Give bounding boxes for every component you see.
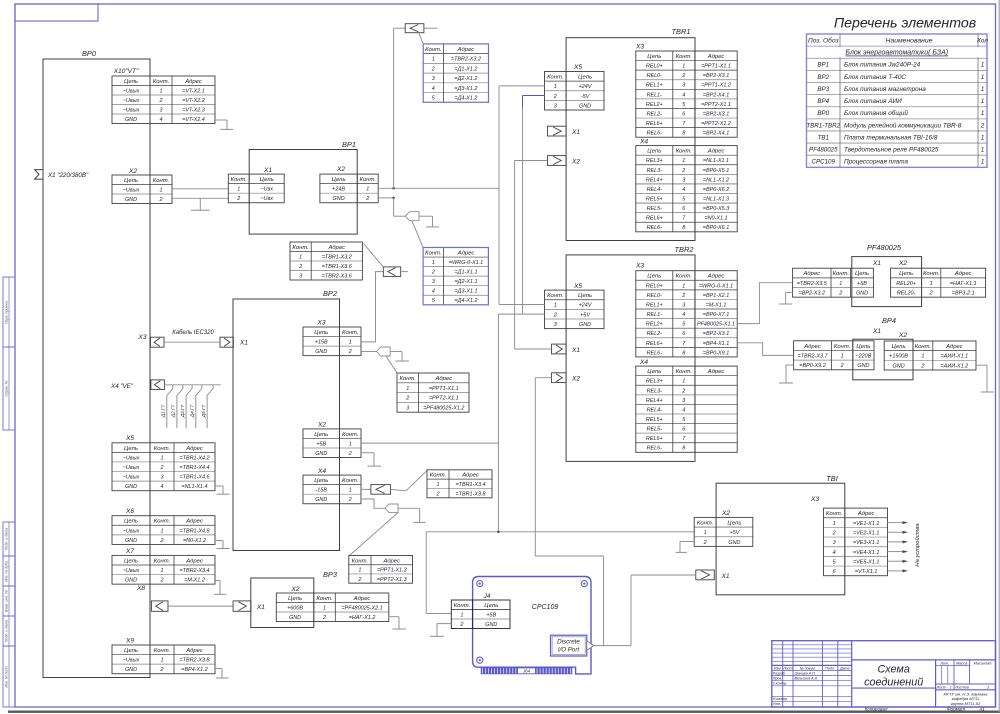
svg-text:REL2-: REL2- [647, 111, 663, 117]
svg-text:-5V: -5V [581, 94, 591, 100]
svg-text:Конт.: Конт. [352, 558, 368, 564]
svg-text:Кабель IEC320: Кабель IEC320 [172, 330, 214, 336]
svg-text:Конт.: Конт. [826, 511, 842, 517]
leader to PPT table [386, 356, 397, 373]
svg-text:2: 2 [681, 168, 685, 174]
svg-text:GND: GND [125, 538, 137, 544]
svg-text:=WRG-0-X1.1: =WRG-0-X1.1 [699, 283, 733, 289]
svg-text:1: 1 [432, 260, 435, 266]
svg-text:BP2: BP2 [817, 74, 829, 81]
svg-text:REL20-: REL20- [897, 291, 916, 297]
svg-text:Изм: Изм [774, 666, 781, 670]
svg-text:~Uвх: ~Uвх [260, 196, 273, 202]
svg-text:TBR1: TBR1 [672, 27, 691, 36]
svg-text:8: 8 [682, 131, 685, 137]
svg-text:Блок питания магнетрона: Блок питания магнетрона [844, 86, 926, 93]
wires TBR2 X3 to BP4 [737, 343, 793, 356]
svg-text:BP2: BP2 [323, 289, 337, 298]
svg-text:Шанцев А.П.: Шанцев А.П. [795, 671, 816, 675]
svg-text:REL0+: REL0+ [646, 283, 663, 289]
svg-text:2: 2 [159, 538, 163, 544]
leader from t3 table [364, 244, 384, 267]
svg-text:Адрес: Адрес [707, 149, 725, 155]
svg-text:=NL1-X1.3: =NL1-X1.3 [703, 196, 729, 202]
svg-text:1: 1 [839, 281, 842, 287]
svg-text:X2: X2 [571, 159, 580, 166]
branch wire D4 from X4 VE bus [196, 385, 202, 428]
svg-text:Справ. №: Справ. № [4, 380, 8, 396]
svg-text:6: 6 [682, 331, 686, 337]
svg-text:Цепь: Цепь [124, 648, 138, 654]
svg-text:1: 1 [237, 187, 240, 193]
svg-text:REL6+: REL6+ [646, 341, 663, 347]
page edge shadow [8, 711, 1000, 713]
svg-text:4: 4 [682, 407, 685, 413]
svg-text:=BP4-X1.2: =BP4-X1.2 [181, 667, 207, 673]
svg-text:REL6-: REL6- [647, 350, 663, 356]
svg-text:2: 2 [322, 615, 326, 621]
wire TBR2 X2 to CPC109 [535, 377, 551, 379]
relay module TBR1 [566, 38, 695, 241]
svg-text:X1: X1 [571, 129, 580, 136]
branch wire D1 from X4 VE bus [167, 385, 173, 428]
svg-text:~Uвх: ~Uвх [260, 187, 273, 193]
svg-text:2: 2 [405, 396, 409, 402]
svg-text:1: 1 [841, 353, 844, 359]
svg-text:Утв.: Утв. [773, 702, 781, 706]
svg-text:Цепь: Цепь [855, 271, 869, 277]
svg-text:Адрес: Адрес [707, 274, 725, 280]
svg-text:~Uвых: ~Uвых [123, 658, 140, 664]
wire X2 GND to BP1-X1 pin2 [172, 197, 228, 199]
svg-text:1: 1 [358, 568, 361, 574]
TBR1 connector X1 chevron [548, 126, 567, 136]
svg-text:X1: X1 [721, 573, 730, 580]
svg-text:GND: GND [485, 622, 497, 628]
svg-text:Адрес: Адрес [857, 511, 875, 517]
svg-text:=TBR2-X3.4: =TBR2-X3.4 [179, 568, 209, 574]
svg-text:Блок питания АИИ: Блок питания АИИ [844, 98, 902, 105]
BP2 connector X1 chevron [220, 337, 233, 347]
svg-text:1: 1 [682, 283, 685, 289]
svg-text:Д3.Г7: Д3.Г7 [180, 404, 185, 418]
svg-text:Копировал: Копировал [865, 706, 888, 711]
svg-text:8: 8 [682, 446, 685, 452]
TBR2 connector X1 chevron [552, 344, 567, 354]
svg-text:X3: X3 [316, 320, 325, 327]
svg-text:REL0+: REL0+ [646, 64, 663, 70]
svg-text:+600В: +600В [287, 605, 303, 611]
TBR1 connector X2 chevron [548, 156, 567, 166]
svg-text:REL1-: REL1- [647, 92, 663, 98]
wire X8 to BP3-X1 [168, 605, 233, 607]
svg-text:=НАГ-X1.1: =НАГ-X1.1 [950, 281, 977, 287]
top-left corner box [15, 4, 98, 21]
tag on BP1 GND net [406, 212, 420, 221]
svg-text:~Uвых: ~Uвых [123, 528, 140, 534]
svg-text:REL4+: REL4+ [646, 398, 663, 404]
svg-text:Д1.Г7: Д1.Г7 [161, 404, 166, 418]
svg-text:Цепь: Цепь [892, 344, 906, 350]
svg-text:Лит.: Лит. [939, 661, 949, 665]
power unit BP4 [853, 339, 913, 380]
svg-text:3: 3 [554, 103, 557, 109]
svg-text:REL5-: REL5- [647, 206, 663, 212]
svg-text:BP1: BP1 [342, 140, 356, 149]
svg-text:X3: X3 [137, 334, 146, 341]
svg-text:Лист: Лист [782, 666, 792, 670]
TBR2 connector X2 chevron [552, 373, 567, 383]
svg-text:Конт.: Конт. [547, 75, 563, 81]
svg-text:4: 4 [432, 289, 435, 295]
svg-text:=NL1-X1.1: =NL1-X1.1 [703, 158, 729, 164]
card edge connector [481, 668, 572, 674]
svg-text:=TBR1-X4.6: =TBR1-X4.6 [179, 475, 210, 481]
svg-text:REL2+: REL2+ [646, 102, 663, 108]
svg-text:Адрес: Адрес [707, 54, 725, 60]
svg-text:5: 5 [682, 196, 686, 202]
svg-text:=TBR2-X3.6: =TBR2-X3.6 [322, 273, 353, 279]
svg-text:REL4-: REL4- [647, 187, 663, 193]
svg-text:Конт.: Конт. [676, 149, 692, 155]
svg-text:=Д4-X1.2: =Д4-X1.2 [454, 96, 477, 102]
svg-text:Взам. инв. №: Взам. инв. № [4, 590, 8, 612]
svg-text:Формат: Формат [947, 706, 965, 711]
svg-text:X1: X1 [571, 347, 580, 354]
svg-text:=WRG-0-X1.1: =WRG-0-X1.1 [449, 260, 483, 266]
svg-text:2: 2 [980, 122, 985, 129]
svg-text:=АИИ-X1.1: =АИИ-X1.1 [941, 354, 969, 360]
svg-text:REL20+: REL20+ [896, 281, 916, 287]
svg-text:GND: GND [125, 197, 137, 203]
svg-text:=М-X1.2: =М-X1.2 [184, 578, 205, 584]
svg-text:Кол: Кол [977, 37, 988, 44]
svg-text:+5В: +5В [857, 281, 867, 287]
svg-text:=Д1-X1.2: =Д1-X1.2 [454, 66, 477, 72]
svg-text:~Uвых: ~Uвых [123, 475, 140, 481]
svg-text:X5: X5 [573, 283, 582, 290]
svg-text:Н.контр.: Н.контр. [773, 697, 788, 701]
svg-text:Цепь: Цепь [314, 478, 328, 484]
svg-text:7: 7 [682, 121, 686, 127]
svg-text:2: 2 [348, 497, 352, 503]
cable address table WRG (blue) [423, 256, 488, 258]
page right edge line [998, 0, 1000, 712]
svg-text:2: 2 [365, 196, 369, 202]
svg-text:соединений: соединений [864, 677, 923, 689]
svg-text:BP0: BP0 [817, 110, 829, 117]
wire bus from X4 VE [164, 384, 220, 386]
svg-text:=Д4-X1.2: =Д4-X1.2 [454, 298, 477, 304]
svg-text:=N0-X1.2: =N0-X1.2 [183, 538, 206, 544]
svg-text:1: 1 [159, 187, 162, 193]
svg-text:REL4+: REL4+ [646, 177, 663, 183]
svg-text:=BP0-X7.1: =BP0-X7.1 [703, 312, 729, 318]
svg-text:~220В: ~220В [855, 353, 871, 359]
svg-text:=BP0-X5.1: =BP0-X5.1 [703, 168, 729, 174]
BP0 cable entry X1 220/380V [35, 170, 43, 180]
svg-text:Масштаб: Масштаб [974, 661, 993, 665]
svg-text:4: 4 [159, 117, 162, 123]
svg-text:=BP3-2.1: =BP3-2.1 [952, 291, 975, 297]
svg-text:5: 5 [682, 417, 686, 423]
svg-text:+24V: +24V [579, 303, 593, 309]
svg-text:Конт.: Конт. [425, 47, 441, 53]
svg-text:X1: X1 [256, 604, 265, 611]
svg-text:=TBR2-X3.5: =TBR2-X3.5 [797, 281, 828, 287]
svg-text:3: 3 [159, 107, 162, 113]
svg-text:4: 4 [682, 312, 685, 318]
svg-text:=PPT2-X1.1: =PPT2-X1.1 [701, 102, 731, 108]
relay module TBR2 [566, 255, 695, 462]
svg-text:Цепь: Цепь [647, 54, 661, 60]
svg-text:X2: X2 [898, 332, 907, 339]
ground J4 GND [437, 623, 451, 625]
address table PPT (mid) [397, 382, 469, 384]
svg-text:Конт.: Конт. [154, 519, 170, 525]
svg-text:X2: X2 [571, 376, 580, 383]
svg-text:CPC109: CPC109 [532, 604, 559, 611]
svg-text:3: 3 [682, 302, 685, 308]
svg-text:I/O Port: I/O Port [558, 647, 580, 654]
cable IEC320 wire [164, 341, 220, 343]
svg-text:Конт.: Конт. [425, 250, 441, 256]
wire trunk X2-X1 v2 [514, 161, 516, 350]
svg-text:2: 2 [159, 667, 163, 673]
address table TBR coils [290, 251, 362, 253]
branch wire D3 from X4 VE bus [186, 385, 192, 428]
top cable flag [394, 27, 406, 29]
svg-text:+5V: +5V [730, 530, 741, 536]
svg-text:=BP2-X3.1: =BP2-X3.1 [703, 111, 729, 117]
svg-text:1: 1 [981, 147, 985, 154]
svg-text:Адрес: Адрес [185, 446, 203, 452]
svg-text:1: 1 [349, 441, 352, 447]
svg-text:J64: J64 [522, 669, 531, 674]
svg-text:Конт.: Конт. [316, 596, 332, 602]
svg-text:REL6+: REL6+ [646, 216, 663, 222]
svg-text:X5: X5 [573, 64, 582, 71]
svg-text:4: 4 [833, 550, 836, 556]
svg-text:X2: X2 [290, 586, 299, 593]
svg-text:=TBR1-X4.2: =TBR1-X4.2 [179, 455, 209, 461]
svg-text:Конт.: Конт. [342, 432, 358, 438]
svg-text:Адрес: Адрес [327, 245, 345, 251]
svg-text:=BP2-X3.1: =BP2-X3.1 [703, 73, 729, 79]
svg-text:REL1-: REL1- [647, 312, 663, 318]
ground on X2 wire [199, 198, 201, 210]
svg-text:Цепь: Цепь [124, 446, 138, 452]
svg-text:+24V: +24V [579, 84, 593, 90]
svg-text:Вельский А.И.: Вельский А.И. [795, 677, 819, 681]
svg-text:=Д1-X1.1: =Д1-X1.1 [454, 270, 477, 276]
svg-text:REL3+: REL3+ [646, 158, 663, 164]
wire BP1 +24V to trunk [378, 187, 499, 189]
svg-text:REL3-: REL3- [647, 388, 663, 394]
wire BP2 +5V to trunk v4 [361, 442, 498, 444]
svg-text:Discrete: Discrete [557, 639, 580, 646]
svg-text:=BP0-X6.2: =BP0-X6.2 [703, 187, 729, 193]
svg-text:Адрес: Адрес [707, 369, 725, 375]
leader to WRG table [412, 221, 423, 248]
svg-text:REL6-: REL6- [647, 225, 663, 231]
svg-text:X2: X2 [128, 168, 137, 175]
svg-text:1: 1 [921, 354, 924, 360]
svg-text:7: 7 [682, 341, 686, 347]
svg-text:Цепь: Цепь [578, 75, 592, 81]
svg-text:1: 1 [554, 303, 557, 309]
svg-text:=TBR1-X3.8: =TBR1-X3.8 [455, 491, 485, 497]
svg-text:1: 1 [554, 84, 557, 90]
svg-text:GND: GND [579, 322, 591, 328]
svg-text:~Uвых: ~Uвых [123, 455, 140, 461]
svg-text:3: 3 [432, 279, 435, 285]
svg-text:Конт.: Конт. [454, 603, 470, 609]
svg-text:Цепь: Цепь [647, 369, 661, 375]
svg-text:1: 1 [160, 455, 163, 461]
svg-text:Масса: Масса [956, 661, 967, 665]
svg-text:Цепь: Цепь [124, 558, 138, 564]
svg-text:Блок энергоавтоматики( БЗА): Блок энергоавтоматики( БЗА) [845, 50, 948, 57]
svg-text:GND: GND [315, 349, 327, 355]
svg-text:Адрес: Адрес [954, 271, 972, 277]
svg-text:REL2-: REL2- [647, 331, 663, 337]
svg-text:~Uвых: ~Uвых [123, 107, 140, 113]
power unit BP0 [43, 59, 150, 678]
svg-text:REL5-: REL5- [647, 427, 663, 433]
wire BP2 X3 GND to tag [361, 351, 377, 353]
svg-text:=BP2-X4.1: =BP2-X4.1 [703, 131, 729, 137]
svg-text:1: 1 [299, 254, 302, 260]
svg-text:3: 3 [299, 273, 302, 279]
svg-text:X1: X1 [239, 340, 248, 347]
wire discrete port [594, 645, 631, 647]
svg-text:2: 2 [832, 530, 836, 536]
svg-text:5: 5 [432, 298, 436, 304]
svg-text:1: 1 [981, 134, 985, 141]
leader to t5 table [406, 470, 428, 491]
svg-text:На устройства: На устройства [914, 523, 921, 567]
svg-text:=BP0-X5.3: =BP0-X5.3 [703, 206, 729, 212]
svg-text:Схема: Схема [877, 664, 909, 676]
flag leader line [419, 33, 424, 44]
wire -5V blue segment [523, 95, 545, 97]
svg-text:4: 4 [432, 86, 435, 92]
svg-text:GND: GND [893, 363, 905, 369]
branch wire D5 from X4 VE bus [207, 385, 213, 428]
svg-text:Подп. и дата: Подп. и дата [4, 620, 8, 643]
svg-text:Конт.: Конт. [697, 520, 713, 526]
svg-text:TBI: TBI [826, 474, 838, 483]
svg-text:Модуль релейной коммуникации T: Модуль релейной коммуникации TBR-8 [844, 121, 962, 129]
svg-text:Цепь: Цепь [124, 178, 138, 184]
svg-text:Цепь: Цепь [260, 177, 274, 183]
svg-text:X3: X3 [635, 263, 644, 270]
svg-text:REL0-: REL0- [647, 293, 663, 299]
svg-text:Адрес: Адрес [457, 47, 475, 53]
svg-text:Твердотельное реле PF480025: Твердотельное реле PF480025 [844, 146, 939, 154]
svg-text:~Uвых: ~Uвых [123, 465, 140, 471]
svg-text:=VT-X2.3: =VT-X2.3 [182, 107, 205, 113]
svg-text:X5: X5 [125, 435, 134, 442]
svg-text:1: 1 [950, 684, 952, 689]
svg-text:REL3-: REL3- [647, 168, 663, 174]
svg-text:=VE3-X1.1: =VE3-X1.1 [853, 540, 879, 546]
svg-text:1: 1 [704, 530, 707, 536]
svg-text:X1: X1 [872, 260, 881, 267]
svg-text:Адрес: Адрес [945, 344, 963, 350]
svg-text:=Д3-X1.2: =Д3-X1.2 [454, 86, 477, 92]
svg-text:=PPT1-X1.3: =PPT1-X1.3 [377, 568, 407, 574]
svg-text:Адрес: Адрес [802, 271, 820, 277]
svg-text:=PPT2-X1.3: =PPT2-X1.3 [377, 577, 407, 583]
svg-text:Адрес: Адрес [803, 344, 821, 350]
svg-text:2: 2 [929, 291, 933, 297]
TB1 X3 output arrows [888, 522, 904, 524]
svg-text:X2: X2 [336, 166, 345, 173]
svg-text:=PPT1-X1.1: =PPT1-X1.1 [701, 64, 731, 70]
svg-text:X3: X3 [810, 496, 819, 503]
left margin strip boxes [3, 277, 15, 347]
svg-text:=N0-X1.1: =N0-X1.1 [704, 216, 727, 222]
svg-text:=Д2-X1.2: =Д2-X1.2 [454, 76, 477, 82]
branch wire D2 from X4 VE bus [177, 385, 183, 428]
svg-text:=BP2-X4.1: =BP2-X4.1 [703, 92, 729, 98]
svg-text:=TBR1-X4.4: =TBR1-X4.4 [179, 465, 209, 471]
J4 power table [451, 609, 510, 611]
wires TBR2 X3 to PF480025 [737, 283, 792, 324]
svg-text:Блок питания Jw240P-24: Блок питания Jw240P-24 [844, 62, 921, 69]
wire riser v5 to discrete port [603, 556, 605, 646]
svg-text:PF480025-X1.1: PF480025-X1.1 [697, 322, 735, 328]
svg-text:BP4: BP4 [882, 316, 896, 325]
screw hole bottom-left [477, 657, 483, 663]
svg-text:3: 3 [682, 177, 685, 183]
svg-text:REL6-: REL6- [647, 446, 663, 452]
svg-text:REL6+: REL6+ [646, 121, 663, 127]
svg-text:Конт.: Конт. [231, 177, 247, 183]
svg-text:2: 2 [681, 73, 685, 79]
terminal board TB1 [716, 483, 845, 595]
svg-text:REL0-: REL0- [647, 73, 663, 79]
svg-text:X9: X9 [125, 638, 134, 645]
svg-text:Адрес: Адрес [184, 79, 202, 85]
svg-text:X6: X6 [125, 508, 134, 515]
svg-text:=АИИ-X1.2: =АИИ-X1.2 [941, 363, 969, 369]
ground for X10 [215, 119, 227, 121]
svg-text:=BP0-X9.2: =BP0-X9.2 [799, 363, 825, 369]
svg-text:~Uвых: ~Uвых [123, 187, 140, 193]
wire trunk +5V v4 [498, 313, 544, 315]
tag BP2 X3 GND [377, 347, 391, 356]
svg-text:1: 1 [366, 187, 369, 193]
svg-text:2: 2 [920, 363, 924, 369]
svg-text:1: 1 [160, 658, 163, 664]
ground BP4 X1 GND [786, 364, 794, 366]
svg-text:2: 2 [703, 540, 707, 546]
svg-text:X8: X8 [136, 585, 145, 592]
svg-text:=NL1-X1.2: =NL1-X1.2 [703, 177, 729, 183]
svg-text:Поз. Обоз: Поз. Обоз [808, 36, 839, 44]
svg-text:4: 4 [682, 187, 685, 193]
svg-text:6: 6 [682, 206, 686, 212]
svg-text:=PPT2-X1.1: =PPT2-X1.1 [429, 396, 459, 402]
svg-text:1: 1 [682, 379, 685, 385]
svg-text:1: 1 [981, 86, 985, 93]
svg-text:PF480025: PF480025 [809, 147, 838, 154]
svg-text:4: 4 [160, 484, 163, 490]
svg-text:Д5.Г7: Д5.Г7 [201, 404, 206, 418]
